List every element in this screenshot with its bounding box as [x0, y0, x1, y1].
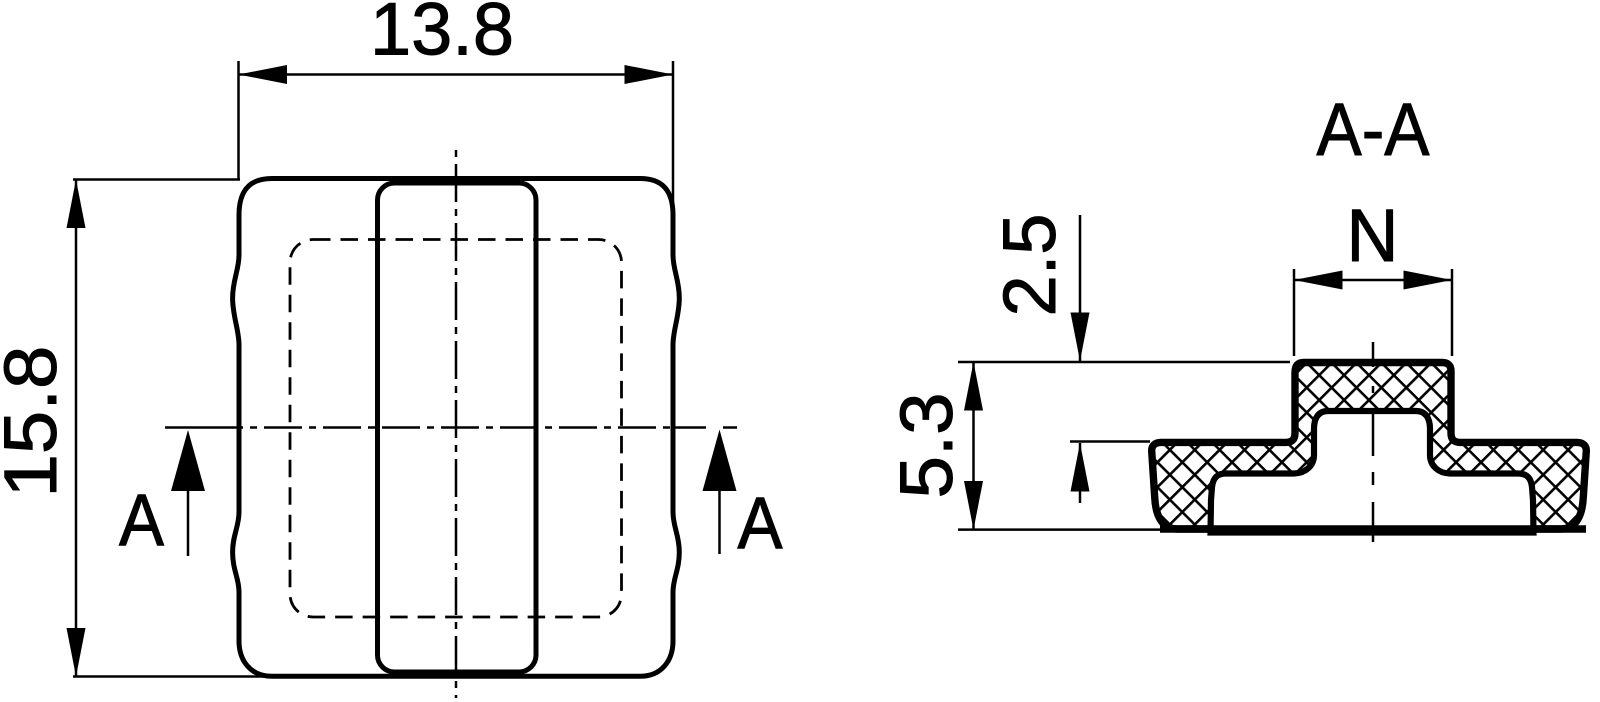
dimension 13.8 extension line right [672, 61, 675, 213]
section arrow right head [703, 430, 737, 492]
plan view hidden (dashed) inner rectangle [290, 240, 622, 618]
dimension N dimension line [1294, 279, 1452, 282]
svg-text:N: N [1347, 194, 1399, 277]
dimension 5.3 dimension line [972, 362, 975, 530]
plan view central band (slot) outline [378, 183, 537, 672]
svg-text:A: A [738, 484, 783, 565]
dimension 15.8 arrowhead bottom [67, 628, 86, 677]
dimension 2.5 dimension line lower [1079, 443, 1082, 503]
section arrow left stem [187, 488, 190, 556]
section plane line left segment [165, 426, 243, 429]
dimension 13.8 arrowhead right [625, 65, 674, 84]
dimension 13.8 extension line left [237, 61, 240, 180]
section bottom edge line [1160, 525, 1586, 532]
dimension 13.8 arrowhead left [239, 65, 288, 84]
svg-text:15.8: 15.8 [0, 346, 72, 498]
dimension 2.5 arrowhead lower [1071, 443, 1090, 492]
section centerline segments [1372, 342, 1375, 367]
plan view vertical centerline [455, 150, 458, 698]
section plane line right dash [723, 426, 737, 429]
dimension 2.5 arrowhead upper [1071, 313, 1090, 362]
dimension N arrowhead left [1294, 271, 1343, 290]
plan view body outline [233, 179, 680, 677]
dimension 15.8 extension line top [73, 178, 240, 181]
section arrow left head [171, 430, 205, 491]
dimension 15.8 extension line bottom [73, 675, 282, 678]
dimension 13.8 dimension line [239, 73, 674, 76]
dimension N arrowhead right [1404, 271, 1453, 290]
section outer profile with crosshatch fill [1152, 363, 1587, 530]
section inner cavity (white) [1211, 411, 1534, 533]
dimension 5.3 extension line bottom [958, 528, 1162, 531]
svg-text:A-A: A-A [1317, 88, 1431, 171]
dimension N extension line right [1451, 269, 1454, 356]
dimension 5.3 extension line middle [1070, 440, 1150, 443]
dimension 5.3 extension line top [958, 361, 1290, 364]
svg-text:A: A [119, 481, 164, 562]
dimension N extension line left [1293, 269, 1296, 356]
dimension 15.8 dimension line [75, 180, 78, 677]
dimension 5.3 arrowhead bottom [964, 481, 983, 530]
svg-text:13.8: 13.8 [370, 0, 514, 71]
plan view horizontal centerline [243, 426, 672, 429]
svg-text:2.5: 2.5 [988, 214, 1071, 317]
svg-text:5.3: 5.3 [885, 393, 968, 499]
dimension 2.5 dimension line upper [1079, 215, 1082, 361]
dimension 15.8 arrowhead top [67, 180, 86, 229]
section plane line right segment [672, 426, 706, 429]
dimension 5.3 arrowhead top [964, 362, 983, 411]
section arrow right stem [718, 488, 721, 554]
